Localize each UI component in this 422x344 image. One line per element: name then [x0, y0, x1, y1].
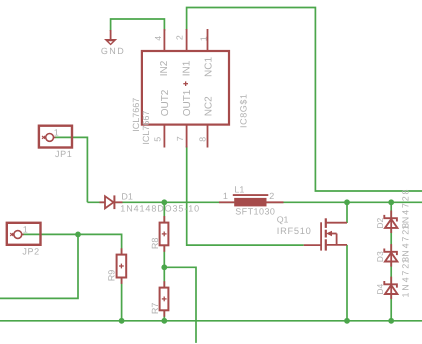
svg-text:1: 1: [23, 224, 28, 234]
svg-text:NC2: NC2: [204, 96, 215, 116]
svg-text:GND: GND: [101, 46, 125, 56]
svg-text:JP1: JP1: [55, 149, 72, 159]
svg-text:1: 1: [199, 36, 209, 41]
svg-text:R7: R7: [150, 303, 160, 315]
svg-text:SFT1030: SFT1030: [235, 206, 275, 216]
svg-text:1: 1: [54, 127, 59, 137]
svg-text:2: 2: [175, 35, 185, 40]
wire Q1 drain up to node: [346, 202, 348, 223]
pin 8 stub: [207, 125, 209, 148]
svg-text:R9: R9: [106, 270, 116, 282]
wire Q1 source down to bottom net: [346, 245, 348, 321]
resistor R9: [117, 248, 127, 284]
wire IC pin 7 down and right to Q1 gate: [187, 146, 304, 245]
svg-text:NC1: NC1: [204, 57, 215, 77]
svg-text:IRF510: IRF510: [277, 226, 312, 236]
pin 5 stub: [163, 125, 165, 148]
plus mark inside IC: [183, 81, 188, 86]
svg-text:IN2: IN2: [159, 60, 170, 76]
svg-text:OUT2: OUT2: [160, 89, 171, 116]
svg-text:1N4148DO35-10: 1N4148DO35-10: [120, 204, 200, 214]
junction node Q1 source bottom: [344, 318, 350, 324]
wire bottom net full width: [0, 320, 422, 322]
wire zener chain vertical: [390, 202, 392, 320]
resistor R7: [160, 281, 169, 317]
junction node R7 bottom: [161, 318, 167, 324]
junction node R9 bottom: [119, 318, 125, 324]
svg-text:OUT1: OUT1: [182, 89, 193, 116]
junction node R8/R7: [161, 264, 167, 270]
svg-text:ICL7667: ICL7667: [141, 111, 151, 145]
svg-text:5: 5: [152, 137, 162, 142]
svg-text:D2: D2: [375, 217, 385, 228]
svg-text:JP2: JP2: [22, 246, 39, 256]
svg-text:Q1: Q1: [277, 215, 289, 225]
svg-text:L1: L1: [234, 184, 244, 194]
pin 1 stub: [207, 29, 209, 51]
svg-text:IC8G$1: IC8G$1: [239, 93, 249, 128]
resistor R8: [160, 216, 169, 252]
wire JP1 pin to D1 anode: [54, 137, 87, 202]
svg-text:D3: D3: [375, 251, 385, 262]
connector JP2: [7, 223, 41, 245]
junction node D1/R8: [161, 199, 167, 205]
svg-text:IN1: IN1: [181, 60, 192, 76]
zener diode D4: [384, 277, 397, 300]
wire from R8/R7 node right and down past bottom net: [164, 267, 196, 343]
junction node Q1 drain: [344, 199, 350, 205]
svg-text:1N4728: 1N4728: [400, 255, 410, 297]
wire GND net from GND symbol to IC pin 4: [111, 19, 165, 31]
svg-text:R8: R8: [150, 238, 160, 250]
diode D1: [100, 195, 123, 209]
svg-text:7: 7: [175, 136, 185, 141]
pin 4 stub: [163, 29, 165, 51]
junction node zener bottom: [388, 318, 394, 324]
connector JP1: [39, 126, 72, 148]
wire JP2 node down and left to edge: [0, 234, 78, 298]
zener diode D3: [384, 244, 397, 267]
zener diode D2: [384, 211, 397, 234]
op-amp driver IC1 ICL7667 box: [142, 51, 229, 125]
pin 7 stub: [186, 125, 188, 148]
svg-text:1: 1: [223, 191, 228, 201]
svg-text:4: 4: [153, 36, 163, 41]
wire IC pin 2 to top-right then down to OUT net: [187, 8, 422, 192]
inductor L1: [219, 195, 284, 206]
svg-text:8: 8: [198, 137, 208, 142]
ground GND symbol: [104, 30, 117, 45]
svg-text:D4: D4: [375, 283, 385, 294]
pin 2 stub: [186, 29, 188, 51]
wire vertical through R8 and R7: [163, 202, 165, 320]
transistor Q1 IRF510: [304, 218, 347, 250]
Q1 substrate arrow head: [326, 231, 332, 237]
svg-text:2: 2: [269, 191, 274, 201]
svg-text:ICL7667: ICL7667: [131, 98, 141, 132]
junction node JP2 branch: [75, 232, 81, 238]
wire JP2 pin right and down through R9: [22, 234, 122, 320]
svg-text:D1: D1: [121, 192, 133, 202]
wire main node: D1 anode through L1 to right edge: [87, 201, 422, 203]
junction node zener top: [388, 199, 394, 205]
